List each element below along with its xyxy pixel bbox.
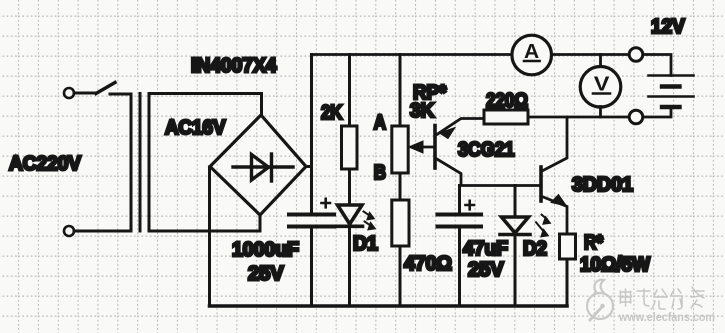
wire: secondary bottom to bridge — [149, 215, 260, 231]
wiper of RP with arrow — [409, 141, 434, 153]
ammeter A — [512, 35, 552, 75]
svg-text:10Ω/5W: 10Ω/5W — [580, 254, 650, 276]
voltmeter V stub bottom — [599, 107, 602, 118]
wire: R* to ground rail — [566, 259, 569, 306]
wire: 2K branch top — [348, 55, 351, 127]
polarity + of C2 — [466, 201, 475, 210]
voltmeter V stub top — [599, 55, 602, 68]
svg-text:IN4007X4: IN4007X4 — [191, 55, 277, 77]
svg-text:A: A — [374, 112, 386, 134]
collector of Q1 — [436, 159, 540, 186]
switch S blade — [96, 83, 115, 94]
wire: C1 to ground rail — [310, 229, 313, 307]
voltmeter V — [580, 67, 621, 108]
wire: top terminal stub — [74, 92, 96, 95]
svg-text:47uF: 47uF — [463, 238, 508, 260]
bridge rectifier IN4007X4 diamond — [210, 115, 306, 215]
transistor Q1 3CG21 base bar — [433, 126, 437, 169]
wire: bottom terminal to primary — [74, 230, 131, 233]
wire: battery minus lead — [643, 107, 671, 117]
top rail — [312, 53, 630, 56]
watermark url — [618, 310, 715, 324]
svg-text:D1: D1 — [353, 233, 378, 255]
ground rail (bottom) — [210, 304, 568, 308]
potentiometer RP 3K body — [392, 126, 408, 173]
wire: 470 to ground rail — [399, 246, 402, 306]
terminal: AC input bottom — [64, 226, 74, 236]
svg-text:3DD01: 3DD01 — [572, 174, 633, 196]
terminal: battery minus — [629, 110, 643, 124]
wire: RP branch top — [399, 55, 402, 127]
resistor 2K — [342, 126, 358, 169]
terminal: AC input top — [64, 88, 74, 98]
transformer T1 primary — [130, 94, 133, 231]
polarity + of C1 — [322, 199, 331, 208]
svg-text:1000uF: 1000uF — [232, 239, 299, 261]
transistor Q2 3DD01 base bar — [539, 167, 543, 201]
wire: D2 to ground rail — [514, 237, 517, 307]
wire: D2 branch top — [514, 186, 517, 217]
right rail to battery minus — [528, 116, 629, 119]
svg-text:3CG21: 3CG21 — [458, 139, 515, 161]
LED D1 — [337, 205, 363, 226]
wire: 2K to D1 — [348, 169, 351, 204]
wire: C2 top to collector node — [458, 186, 461, 214]
wire: bridge minus down to ground rail — [208, 167, 211, 306]
svg-text:3K: 3K — [410, 100, 435, 122]
wire: RP to 470 — [399, 173, 402, 200]
svg-text:2K: 2K — [321, 102, 343, 124]
LED D2 — [500, 217, 530, 235]
svg-text:12V: 12V — [651, 16, 685, 38]
svg-text:25V: 25V — [248, 263, 284, 285]
resistor 220 ohm — [484, 110, 528, 124]
wire: switch to transformer primary — [110, 93, 131, 96]
wire: D1 to ground rail — [348, 228, 351, 306]
svg-text:25V: 25V — [468, 259, 504, 281]
wire: bridge plus to main vertical — [306, 165, 312, 168]
light arrows of D1 — [364, 212, 376, 230]
svg-text:B: B — [374, 162, 386, 184]
svg-text:AC220V: AC220V — [9, 153, 82, 175]
emitter of Q1 with arrow to base — [436, 119, 484, 139]
resistor 470 ohm — [392, 200, 409, 246]
capacitor C1 1000uF plates — [289, 215, 334, 227]
battery GB plates — [649, 76, 694, 108]
svg-text:R*: R* — [584, 232, 603, 254]
wire: battery plus lead — [643, 55, 671, 76]
diode inside bridge — [233, 154, 293, 181]
light arrows of D2 — [536, 215, 551, 237]
emitter of Q2 with arrow — [542, 195, 567, 235]
transformer T1 core — [139, 94, 142, 232]
wire: C2 to ground rail — [458, 229, 461, 307]
wire: positive vertical upper — [310, 55, 313, 214]
resistor R* — [560, 234, 576, 259]
svg-text:AC16V: AC16V — [165, 117, 226, 139]
svg-text:D2: D2 — [523, 238, 547, 260]
watermark text — [620, 287, 704, 309]
watermark logo — [587, 280, 613, 321]
svg-text:www.elecfans.com: www.elecfans.com — [618, 310, 715, 324]
svg-text:220Ω: 220Ω — [486, 90, 528, 112]
svg-text:470Ω: 470Ω — [404, 253, 452, 275]
terminal: battery plus — [629, 48, 643, 62]
transformer T1 secondary winding — [149, 94, 262, 232]
collector of Q2 — [542, 117, 567, 171]
capacitor C2 47uF plates — [438, 215, 482, 227]
